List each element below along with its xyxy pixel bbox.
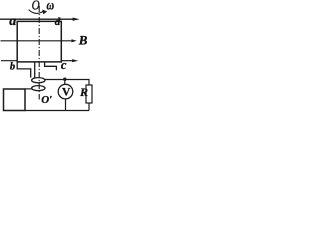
svg-text:c: c (61, 58, 67, 72)
svg-text:R: R (79, 85, 88, 99)
field line B middle (1, 40, 72, 42)
svg-text:a: a (9, 14, 16, 29)
resistor bottom wire (88, 103, 90, 111)
svg-text:O′: O′ (41, 94, 52, 106)
left wire box (4, 89, 26, 111)
rotation arrow arc (29, 10, 43, 14)
rotation arrowhead (42, 10, 47, 15)
bottom wire (25, 110, 89, 112)
coil loop abcd (17, 21, 61, 62)
field line B bottom left segment (1, 60, 17, 62)
svg-text:V: V (62, 86, 71, 98)
coil lead to ring1 (34, 62, 36, 78)
svg-text:O: O (32, 0, 40, 13)
slip ring 2 (32, 86, 45, 91)
svg-text:d: d (55, 16, 61, 28)
svg-text:b: b (10, 62, 15, 73)
wire ring1 to resistor top (45, 80, 89, 86)
wire ring2 to left box (25, 88, 32, 90)
junction dot (63, 78, 66, 81)
left lead from b (17, 62, 31, 78)
field line B top (0, 18, 73, 20)
right lead from c (45, 62, 57, 70)
background (0, 0, 93, 116)
field line B bottom right segment (61, 60, 72, 62)
voltmeter top stub (64, 80, 66, 85)
svg-text:ω: ω (47, 0, 55, 13)
voltmeter bottom stub (65, 99, 67, 111)
slip ring 1 (32, 78, 45, 83)
rotation axis (dash-dot) (38, 6, 40, 100)
svg-text:B: B (78, 32, 88, 47)
voltmeter circle (58, 84, 73, 99)
resistor R box (86, 85, 92, 103)
